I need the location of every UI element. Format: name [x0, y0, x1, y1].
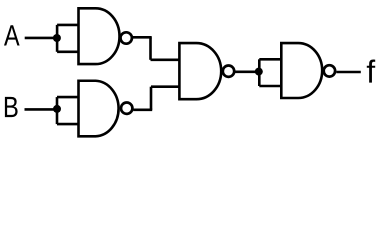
nand gate U3 body [179, 43, 221, 99]
wire U1 output horizontal [133, 36, 152, 39]
wire f output [336, 71, 361, 74]
nand gate U2 output bubble [121, 103, 132, 114]
wire U2 output horizontal [133, 109, 152, 112]
nand gate U2 body [79, 81, 119, 137]
wire B [25, 108, 58, 111]
nand gate U1 body [79, 8, 120, 64]
nand gate U1 output bubble [121, 32, 132, 43]
wire B lower input stub to U2 [57, 123, 80, 126]
output label f [367, 60, 375, 83]
nand gate U4 output bubble [324, 65, 335, 76]
wire into U3 lower input [151, 85, 181, 88]
junction dot node B [53, 105, 61, 113]
wire node C lower input stub to U4 [259, 85, 282, 88]
wire A branch vertical [56, 25, 59, 52]
junction dot node A [53, 34, 61, 42]
nand gate U3 output bubble [223, 66, 234, 77]
wire A [25, 37, 57, 40]
wire U3 output [235, 71, 259, 74]
wire A upper input stub to U1 [57, 24, 80, 27]
wire node C upper input stub to U4 [259, 58, 282, 61]
junction dot node C [255, 68, 263, 76]
wire node C branch vertical [258, 59, 261, 86]
wire B upper input stub to U2 [57, 96, 80, 99]
wire U2 output vertical rise [150, 87, 153, 110]
input label A [4, 25, 20, 45]
nand gate U4 body [281, 43, 322, 98]
wire A lower input stub to U1 [57, 50, 80, 53]
wire into U3 upper input [151, 58, 181, 61]
input label B [5, 97, 18, 117]
wire B branch vertical [56, 97, 59, 124]
wire U1 output vertical drop [149, 37, 152, 60]
